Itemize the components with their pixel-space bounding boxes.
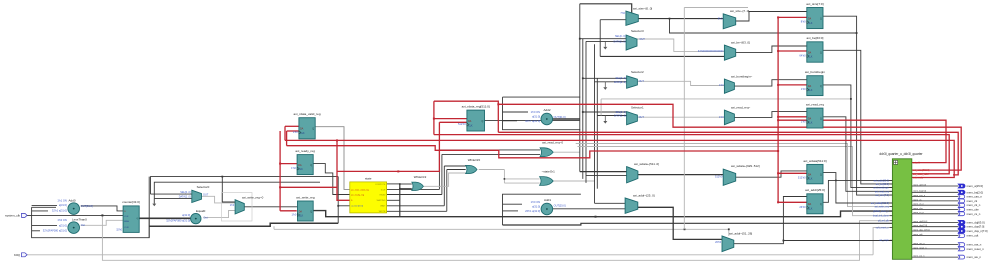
svg-text:Q: Q bbox=[310, 165, 312, 167]
svg-text:WhileOr0: WhileOr0 bbox=[468, 158, 481, 162]
svg-text:OUT: OUT bbox=[639, 80, 645, 83]
svg-text:mem_cs_n: mem_cs_n bbox=[913, 212, 924, 214]
svg-text:mem_cke: mem_cke bbox=[913, 208, 923, 210]
svg-text:CLK: CLK bbox=[808, 208, 813, 210]
svg-text:Q: Q bbox=[820, 174, 822, 176]
svg-text:CLK: CLK bbox=[808, 57, 813, 59]
svg-text:a[31:0]: a[31:0] bbox=[59, 203, 67, 207]
svg-text:Selector2: Selector2 bbox=[631, 70, 644, 74]
svg-text:READ: READ bbox=[380, 193, 386, 196]
svg-text:axi_read_req~: axi_read_req~ bbox=[731, 105, 751, 109]
svg-text:CLK: CLK bbox=[808, 123, 813, 125]
svg-text:counter[31:0]: counter[31:0] bbox=[122, 200, 140, 204]
svg-text:DA: DA bbox=[808, 17, 812, 20]
svg-text:axi_rdata_valid_reg: axi_rdata_valid_reg bbox=[294, 112, 321, 116]
svg-text:WAIT: WAIT bbox=[380, 205, 386, 208]
svg-text:axi_size[7:0]: axi_size[7:0] bbox=[876, 194, 890, 197]
svg-text:Add0: Add0 bbox=[69, 198, 76, 202]
svg-text:DATA[2..0]: DATA[2..0] bbox=[614, 81, 626, 84]
svg-text:a[31:0]: a[31:0] bbox=[59, 223, 67, 227]
svg-text:SEL[0..0]: SEL[0..0] bbox=[180, 191, 191, 194]
svg-text:DA: DA bbox=[808, 51, 812, 54]
svg-text:mem_odt: mem_odt bbox=[967, 234, 979, 238]
svg-text:axi_be[63:0]: axi_be[63:0] bbox=[806, 36, 823, 40]
svg-text:Q: Q bbox=[820, 204, 822, 206]
svg-text:ENA: ENA bbox=[124, 220, 129, 223]
svg-text:DA: DA bbox=[808, 117, 812, 120]
svg-text:DA: DA bbox=[298, 164, 302, 167]
svg-text:8'h0: 8'h0 bbox=[718, 17, 723, 20]
svg-text:CLK: CLK bbox=[300, 133, 305, 135]
svg-text:mem_dqs[7:0]: mem_dqs[7:0] bbox=[913, 225, 927, 227]
svg-text:512'h0: 512'h0 bbox=[458, 122, 466, 126]
svg-text:mem_reset_n: mem_reset_n bbox=[913, 246, 927, 249]
svg-text:mem_a[15:0]: mem_a[15:0] bbox=[967, 184, 984, 188]
svg-text:CLK: CLK bbox=[808, 23, 813, 25]
svg-text:a[31:0]: a[31:0] bbox=[182, 213, 190, 217]
svg-text:DA: DA bbox=[300, 128, 304, 131]
svg-text:mem_dqs_n[7:0]: mem_dqs_n[7:0] bbox=[967, 229, 988, 233]
svg-text:soft_reset_n: soft_reset_n bbox=[876, 227, 890, 230]
svg-text:K0Q: K0Q bbox=[14, 253, 21, 257]
svg-text:axi_ready_reg: axi_ready_reg bbox=[295, 149, 315, 153]
svg-text:mem_dq[63:0]: mem_dq[63:0] bbox=[913, 221, 927, 223]
svg-text:mem_we_n: mem_we_n bbox=[967, 255, 982, 259]
svg-text:axi_read_req~0: axi_read_req~0 bbox=[542, 141, 563, 145]
svg-text:axi_wdata~[511..0]: axi_wdata~[511..0] bbox=[634, 162, 659, 166]
svg-text:WAITING: WAITING bbox=[377, 199, 386, 202]
svg-text:axi_be[63:0]: axi_be[63:0] bbox=[876, 183, 889, 186]
svg-text:1'h0: 1'h0 bbox=[291, 166, 296, 170]
svg-text:axi_wdata[511:0]: axi_wdata[511:0] bbox=[871, 202, 889, 205]
svg-text:LessThan0: LessThan0 bbox=[72, 218, 87, 222]
svg-text:Q: Q bbox=[820, 52, 822, 54]
svg-text:Selector0: Selector0 bbox=[197, 185, 210, 189]
svg-text:512'h0: 512'h0 bbox=[798, 175, 806, 179]
svg-text:axi_clk: axi_clk bbox=[913, 163, 921, 165]
svg-text:counter[31:0]: counter[31:0] bbox=[351, 205, 364, 208]
svg-text:Equal0: Equal0 bbox=[196, 209, 206, 213]
svg-text:OUT: OUT bbox=[640, 38, 646, 41]
svg-text:axi_rdata_valid: axi_rdata_valid bbox=[913, 173, 929, 176]
svg-text:1'h1 ON: 1'h1 ON bbox=[57, 198, 67, 202]
svg-text:32'h2FAF080 a[31:0]: 32'h2FAF080 a[31:0] bbox=[166, 218, 190, 222]
svg-text:axi_addr~[25..0]: axi_addr~[25..0] bbox=[633, 194, 655, 198]
svg-text:Q: Q bbox=[312, 129, 314, 131]
svg-text:OUT[31:0]: OUT[31:0] bbox=[81, 204, 93, 208]
svg-text:CLK: CLK bbox=[124, 216, 129, 218]
svg-text:axi_burstbegin: axi_burstbegin bbox=[873, 187, 889, 190]
svg-text:system_clk: system_clk bbox=[5, 214, 20, 218]
svg-text:mem_ba[2:0]: mem_ba[2:0] bbox=[913, 191, 926, 193]
svg-text:1'h0 ON: 1'h0 ON bbox=[531, 200, 541, 204]
svg-text:Selector1: Selector1 bbox=[631, 106, 644, 110]
svg-text:26'h1 a[31:0]: 26'h1 a[31:0] bbox=[525, 209, 540, 213]
svg-text:axi_size~[7..0]: axi_size~[7..0] bbox=[730, 9, 749, 13]
svg-text:Q: Q bbox=[310, 211, 312, 213]
svg-text:axi_size[7:0]: axi_size[7:0] bbox=[806, 2, 823, 6]
svg-text:mem_reset_n: mem_reset_n bbox=[967, 247, 985, 251]
svg-text:CLK: CLK bbox=[808, 90, 813, 92]
svg-text:7'h0: 7'h0 bbox=[620, 12, 625, 15]
svg-text:DA: DA bbox=[808, 85, 812, 88]
svg-text:512'h0: 512'h0 bbox=[715, 175, 723, 178]
svg-text:axi_wdata[511:0]: axi_wdata[511:0] bbox=[803, 159, 826, 163]
svg-text:axi_ready: axi_ready bbox=[913, 177, 924, 180]
svg-text:1'h0: 1'h0 bbox=[801, 119, 806, 123]
svg-text:DATA[2..0]: DATA[2..0] bbox=[614, 115, 626, 118]
svg-text:1'h0: 1'h0 bbox=[719, 84, 724, 87]
svg-text:OUT[25:0]: OUT[25:0] bbox=[554, 203, 566, 207]
svg-text:Selector3: Selector3 bbox=[631, 29, 644, 33]
svg-text:DATA[2..0]: DATA[2..0] bbox=[613, 40, 625, 43]
svg-text:CLR: CLR bbox=[124, 227, 129, 229]
svg-text:state: state bbox=[365, 176, 372, 180]
svg-text:1'h0 ON: 1'h0 ON bbox=[57, 218, 67, 222]
svg-text:OUT: OUT bbox=[203, 193, 209, 196]
svg-text:axi_burstbegin: axi_burstbegin bbox=[805, 70, 825, 74]
svg-text:OUT[31:0]: OUT[31:0] bbox=[554, 115, 566, 119]
svg-text:axi_addr[25:0]: axi_addr[25:0] bbox=[805, 188, 825, 192]
svg-text:CLK: CLK bbox=[299, 216, 304, 218]
svg-text:a[31:0]: a[31:0] bbox=[532, 205, 540, 209]
svg-text:a[31:0]: a[31:0] bbox=[532, 115, 540, 119]
svg-text:CLK: CLK bbox=[808, 179, 813, 181]
svg-text:axi_state_valid_reg: axi_state_valid_reg bbox=[351, 188, 370, 191]
svg-text:axi_rdata[511:0]: axi_rdata[511:0] bbox=[913, 169, 930, 172]
svg-text:8'h0: 8'h0 bbox=[801, 20, 806, 24]
svg-text:DA: DA bbox=[808, 173, 812, 176]
svg-text:26'h0: 26'h0 bbox=[799, 205, 806, 209]
svg-text:oct_rzqin: oct_rzqin bbox=[879, 239, 889, 242]
svg-text:axi_ready_reg: axi_ready_reg bbox=[351, 193, 365, 196]
svg-text:axi_burstbegin~: axi_burstbegin~ bbox=[731, 74, 753, 78]
svg-text:mem_odt: mem_odt bbox=[913, 233, 923, 236]
svg-text:32'h7 a[31:0]: 32'h7 a[31:0] bbox=[525, 119, 540, 123]
svg-text:COMPUTE: COMPUTE bbox=[375, 184, 386, 186]
svg-text:axi_write_req: axi_write_req bbox=[875, 206, 890, 209]
svg-text:Q: Q bbox=[820, 118, 822, 120]
svg-text:DA: DA bbox=[808, 203, 812, 206]
svg-text:CLK: CLK bbox=[468, 125, 473, 127]
svg-text:WRITE: WRITE bbox=[379, 211, 386, 213]
svg-text:axi_rdata_reg[511:0]: axi_rdata_reg[511:0] bbox=[462, 105, 490, 109]
svg-text:Q: Q bbox=[820, 86, 822, 88]
svg-text:1'h0 ON: 1'h0 ON bbox=[531, 110, 541, 114]
svg-text:axi_be~[63..0]: axi_be~[63..0] bbox=[731, 41, 750, 45]
svg-text:DA: DA bbox=[299, 210, 303, 213]
svg-text:SEL[0..0]: SEL[0..0] bbox=[615, 35, 626, 38]
svg-text:local_init_done: local_init_done bbox=[873, 215, 890, 218]
svg-text:OUT: OUT bbox=[639, 116, 645, 119]
svg-text:mem_cas_n: mem_cas_n bbox=[913, 195, 926, 197]
svg-text:WhileOr2: WhileOr2 bbox=[414, 175, 427, 179]
svg-text:SEL[0..0]: SEL[0..0] bbox=[616, 111, 627, 114]
svg-text:pll_ref_clk: pll_ref_clk bbox=[878, 220, 890, 223]
svg-text:mem_a[15:0]: mem_a[15:0] bbox=[913, 184, 926, 186]
svg-text:~stateOr1: ~stateOr1 bbox=[542, 169, 556, 173]
svg-text:Add1: Add1 bbox=[544, 198, 551, 202]
svg-text:axi_read_req: axi_read_req bbox=[806, 103, 824, 107]
svg-text:DATA[2..0]: DATA[2..0] bbox=[179, 196, 191, 199]
svg-text:26'h0: 26'h0 bbox=[715, 241, 722, 244]
svg-text:mem_dqs_n[7:0]: mem_dqs_n[7:0] bbox=[913, 229, 930, 231]
svg-text:axi_size~[0..0]: axi_size~[0..0] bbox=[633, 7, 652, 11]
svg-text:Q: Q bbox=[136, 218, 138, 220]
svg-text:IDLE: IDLE bbox=[381, 189, 386, 191]
svg-text:axi_wdata~[929..512]: axi_wdata~[929..512] bbox=[731, 164, 760, 168]
svg-text:Out: Out bbox=[203, 215, 207, 219]
svg-text:32'h0: 32'h0 bbox=[116, 229, 122, 232]
svg-text:64'h0: 64'h0 bbox=[799, 53, 806, 57]
svg-text:global_reset_n: global_reset_n bbox=[873, 210, 889, 213]
svg-text:Out: Out bbox=[81, 223, 85, 227]
svg-text:mem_cs_n: mem_cs_n bbox=[967, 212, 981, 216]
svg-text:axi_write_reg~0: axi_write_reg~0 bbox=[242, 195, 264, 199]
svg-text:mem_ras_n: mem_ras_n bbox=[913, 242, 925, 245]
svg-text:1'h0: 1'h0 bbox=[230, 204, 235, 207]
svg-text:1'h0: 1'h0 bbox=[719, 116, 724, 119]
svg-text:axi_addr~[51..26]: axi_addr~[51..26] bbox=[729, 231, 752, 235]
svg-text:axi_read_req: axi_read_req bbox=[875, 190, 890, 193]
svg-text:ddr3l_quarter_u_ddr3l_quarter: ddr3l_quarter_u_ddr3l_quarter bbox=[879, 152, 923, 156]
svg-text:axi_write_reg: axi_write_reg bbox=[296, 195, 315, 199]
svg-text:CLK: CLK bbox=[298, 169, 303, 171]
svg-text:mem_ck: mem_ck bbox=[913, 199, 922, 201]
svg-text:mem_we_n: mem_we_n bbox=[913, 256, 925, 258]
svg-text:mem_ck_n: mem_ck_n bbox=[913, 204, 924, 206]
svg-text:1'h0: 1'h0 bbox=[291, 212, 296, 216]
svg-text:Add2: Add2 bbox=[544, 108, 551, 112]
svg-text:Q: Q bbox=[482, 121, 484, 123]
svg-text:32'h2FAF080 a[31:0]: 32'h2FAF080 a[31:0] bbox=[43, 229, 67, 233]
svg-text:DA: DA bbox=[468, 120, 472, 123]
svg-text:Q: Q bbox=[820, 18, 822, 20]
svg-text:1'h0: 1'h0 bbox=[801, 87, 806, 91]
svg-text:1'h0: 1'h0 bbox=[293, 130, 298, 134]
svg-text:SEL[0..0]: SEL[0..0] bbox=[616, 77, 627, 80]
svg-text:32'h1 a[31:0]: 32'h1 a[31:0] bbox=[52, 209, 67, 213]
svg-text:64'h0000000000000000: 64'h0000000000000000 bbox=[698, 50, 724, 53]
